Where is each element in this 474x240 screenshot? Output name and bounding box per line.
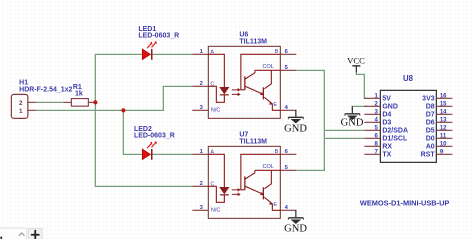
- svg-text:GND: GND: [284, 124, 307, 135]
- wire LED2 to U7.A: [152, 153, 193, 155]
- connector H1 HDR-F-2.54_1x2: [11, 79, 72, 118]
- wire U8 GND pin to GND: [352, 106, 366, 110]
- svg-text:A: A: [210, 49, 214, 55]
- svg-text:TX: TX: [382, 151, 391, 158]
- wire H1.1 to U6.C: [36, 86, 193, 110]
- svg-text:TIL113M: TIL113M: [239, 38, 267, 45]
- LED LED2 LED-0603_R: [134, 126, 175, 160]
- svg-text:11: 11: [440, 133, 447, 139]
- wire U6.COL to U7.COL trunk: [296, 70, 324, 170]
- svg-text:RST: RST: [421, 151, 436, 158]
- pin 6 D1/SCL / pin 11 D0: [364, 137, 380, 139]
- svg-text:WEMOS-D1-MINI-USB-UP: WEMOS-D1-MINI-USB-UP: [360, 199, 450, 208]
- svg-text:2: 2: [200, 81, 203, 87]
- svg-text:C: C: [210, 181, 214, 187]
- ground GND-U7: [284, 210, 307, 234]
- pin 4 D3 / pin 13 D6: [364, 121, 380, 123]
- power flag VCC: [347, 55, 365, 72]
- svg-text:GND: GND: [284, 223, 307, 234]
- svg-text:D6: D6: [426, 119, 435, 126]
- svg-text:D1/SCL: D1/SCL: [382, 135, 408, 142]
- svg-text:COL: COL: [263, 64, 274, 70]
- svg-text:H1: H1: [19, 79, 28, 86]
- UI sheet tab panel: [0, 228, 27, 240]
- svg-text:3V3: 3V3: [422, 95, 435, 102]
- svg-text:5V: 5V: [382, 95, 391, 102]
- svg-text:D0: D0: [426, 135, 435, 142]
- LED LED1 LED-0603_R: [138, 26, 179, 60]
- svg-text:D7: D7: [426, 111, 435, 118]
- pin 3 D4 / pin 14 D7: [364, 113, 380, 115]
- svg-text:GND: GND: [382, 103, 398, 110]
- ground GND-U6: [284, 110, 307, 135]
- svg-text:1k: 1k: [75, 91, 83, 98]
- svg-text:HDR-F-2.54_1x2: HDR-F-2.54_1x2: [19, 86, 72, 93]
- junction LED2 branch: [121, 108, 125, 112]
- pin 7 TX / pin 9 RST: [364, 153, 380, 155]
- svg-text:D8: D8: [426, 103, 435, 110]
- svg-text:12: 12: [440, 125, 447, 131]
- wire H1.2 to R1: [36, 101, 64, 103]
- UI corner mark: [0, 237, 2, 240]
- svg-text:N/C: N/C: [211, 207, 221, 213]
- op-amp U6 (optocoupler TIL113M): [192, 32, 296, 119]
- resistor R1 1k: [63, 84, 95, 106]
- svg-text:E: E: [273, 102, 277, 108]
- svg-text:13: 13: [440, 117, 447, 123]
- svg-text:LED-0603_R: LED-0603_R: [138, 32, 179, 39]
- svg-text:1: 1: [19, 108, 23, 115]
- pin 8 RX / pin 10 A0: [364, 145, 380, 147]
- ground GND-U8: [341, 106, 364, 128]
- UI plus button: [29, 229, 42, 240]
- svg-text:A0: A0: [426, 143, 435, 150]
- junction R1/vertical: [93, 100, 97, 104]
- svg-text:D2/SDA: D2/SDA: [382, 127, 408, 134]
- svg-text:D3: D3: [382, 119, 391, 126]
- op-amp U7 (optocoupler TIL113M): [192, 132, 296, 219]
- svg-text:U8: U8: [403, 74, 414, 83]
- svg-text:D5: D5: [426, 127, 435, 134]
- svg-text:A: A: [210, 149, 214, 155]
- svg-text:2: 2: [19, 100, 23, 107]
- pin 2 GND / pin 15 D8: [364, 105, 380, 107]
- svg-text:N/C: N/C: [211, 107, 221, 113]
- svg-text:14: 14: [440, 109, 447, 115]
- pin 1 5V / pin 16 3V3: [364, 97, 380, 99]
- IC U8 WEMOS-D1-MINI-USB-UP: [360, 74, 453, 207]
- wire LED1 to U6.A: [152, 53, 193, 55]
- wire junction branch to LED2: [123, 110, 142, 154]
- wire R1 node vertical: LED1 / U7.C: [95, 54, 192, 186]
- svg-text:E: E: [273, 202, 277, 208]
- svg-text:15: 15: [440, 101, 447, 107]
- svg-text:C: C: [210, 81, 214, 87]
- svg-text:LED-0603_R: LED-0603_R: [134, 133, 175, 140]
- svg-text:B: B: [275, 49, 279, 55]
- wire VCC to U8 5V: [356, 71, 366, 98]
- svg-text:10: 10: [440, 141, 447, 147]
- svg-text:TIL113M: TIL113M: [239, 138, 267, 145]
- wire branch to U8 D1/SCL: [324, 137, 364, 139]
- svg-text:16: 16: [440, 93, 447, 99]
- svg-text:RX: RX: [382, 143, 392, 150]
- svg-text:B: B: [275, 149, 279, 155]
- wire branch to U8 D2/SDA: [324, 129, 364, 131]
- UI chevron: [19, 233, 25, 236]
- pin 5 D2/SDA / pin 12 D5: [364, 129, 380, 131]
- svg-text:2: 2: [200, 181, 203, 187]
- svg-text:VCC: VCC: [347, 55, 365, 65]
- svg-text:D4: D4: [382, 111, 391, 118]
- svg-text:GND: GND: [341, 117, 364, 128]
- svg-text:COL: COL: [263, 164, 274, 170]
